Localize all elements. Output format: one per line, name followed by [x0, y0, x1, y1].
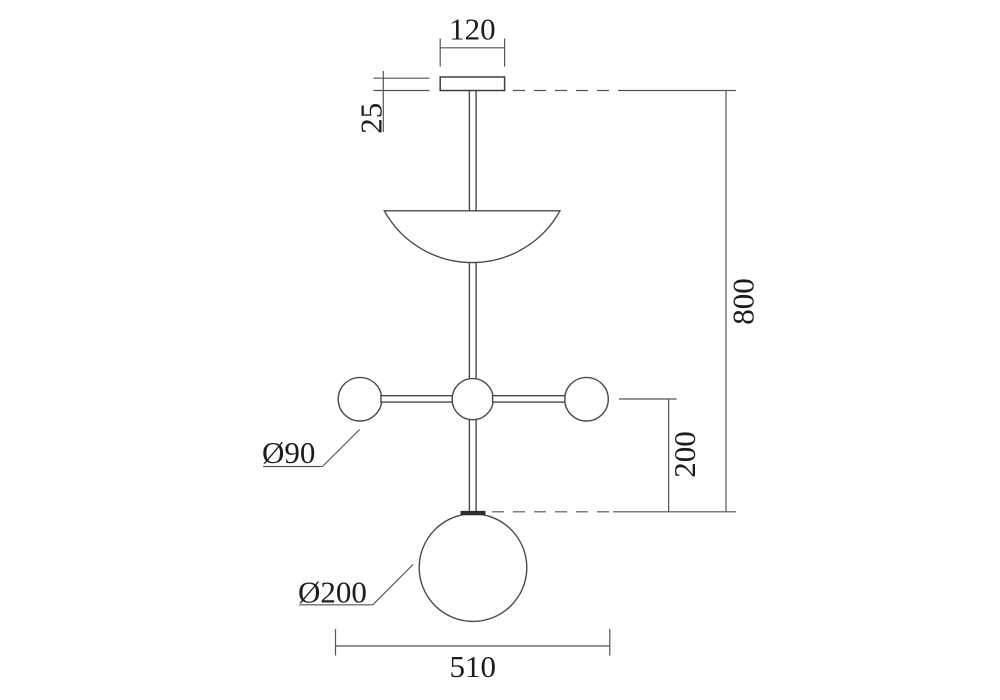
svg-text:Ø90: Ø90: [262, 435, 315, 470]
right arm tube: [493, 396, 565, 402]
dim 25 extension lines: [374, 78, 430, 90]
rod lower segment: [469, 419, 476, 511]
svg-text:Ø200: Ø200: [298, 575, 367, 610]
bowl shade: [384, 211, 560, 263]
svg-text:800: 800: [726, 278, 761, 325]
ceiling plate: [440, 77, 504, 91]
svg-text:25: 25: [353, 103, 388, 134]
leader O90: [263, 430, 360, 467]
svg-text:120: 120: [449, 12, 496, 47]
leader O200: [299, 565, 413, 605]
bottom sphere: [419, 514, 527, 622]
extension line bottom right: [613, 511, 736, 513]
rod middle segment: [469, 262, 476, 379]
dim 200 line: [668, 399, 670, 512]
dim 510 end bars: [336, 629, 610, 656]
dashed projection line top: [513, 90, 618, 92]
dim 25 line: [382, 71, 384, 132]
dim 200 extension line: [619, 398, 677, 400]
dim 120 line: [440, 47, 504, 49]
center sphere: [452, 379, 493, 420]
right sphere: [565, 377, 609, 421]
svg-text:200: 200: [667, 431, 702, 478]
rod upper segment: [469, 91, 476, 211]
svg-text:510: 510: [450, 649, 497, 684]
extension line top right: [618, 90, 736, 92]
dim 120 extension lines: [440, 39, 504, 67]
socket cap: [461, 511, 486, 515]
left arm tube: [381, 396, 452, 402]
dim 800 line: [725, 91, 727, 512]
left sphere: [338, 377, 382, 421]
dashed projection line bottom: [492, 511, 610, 513]
dim 510 line: [336, 645, 610, 647]
